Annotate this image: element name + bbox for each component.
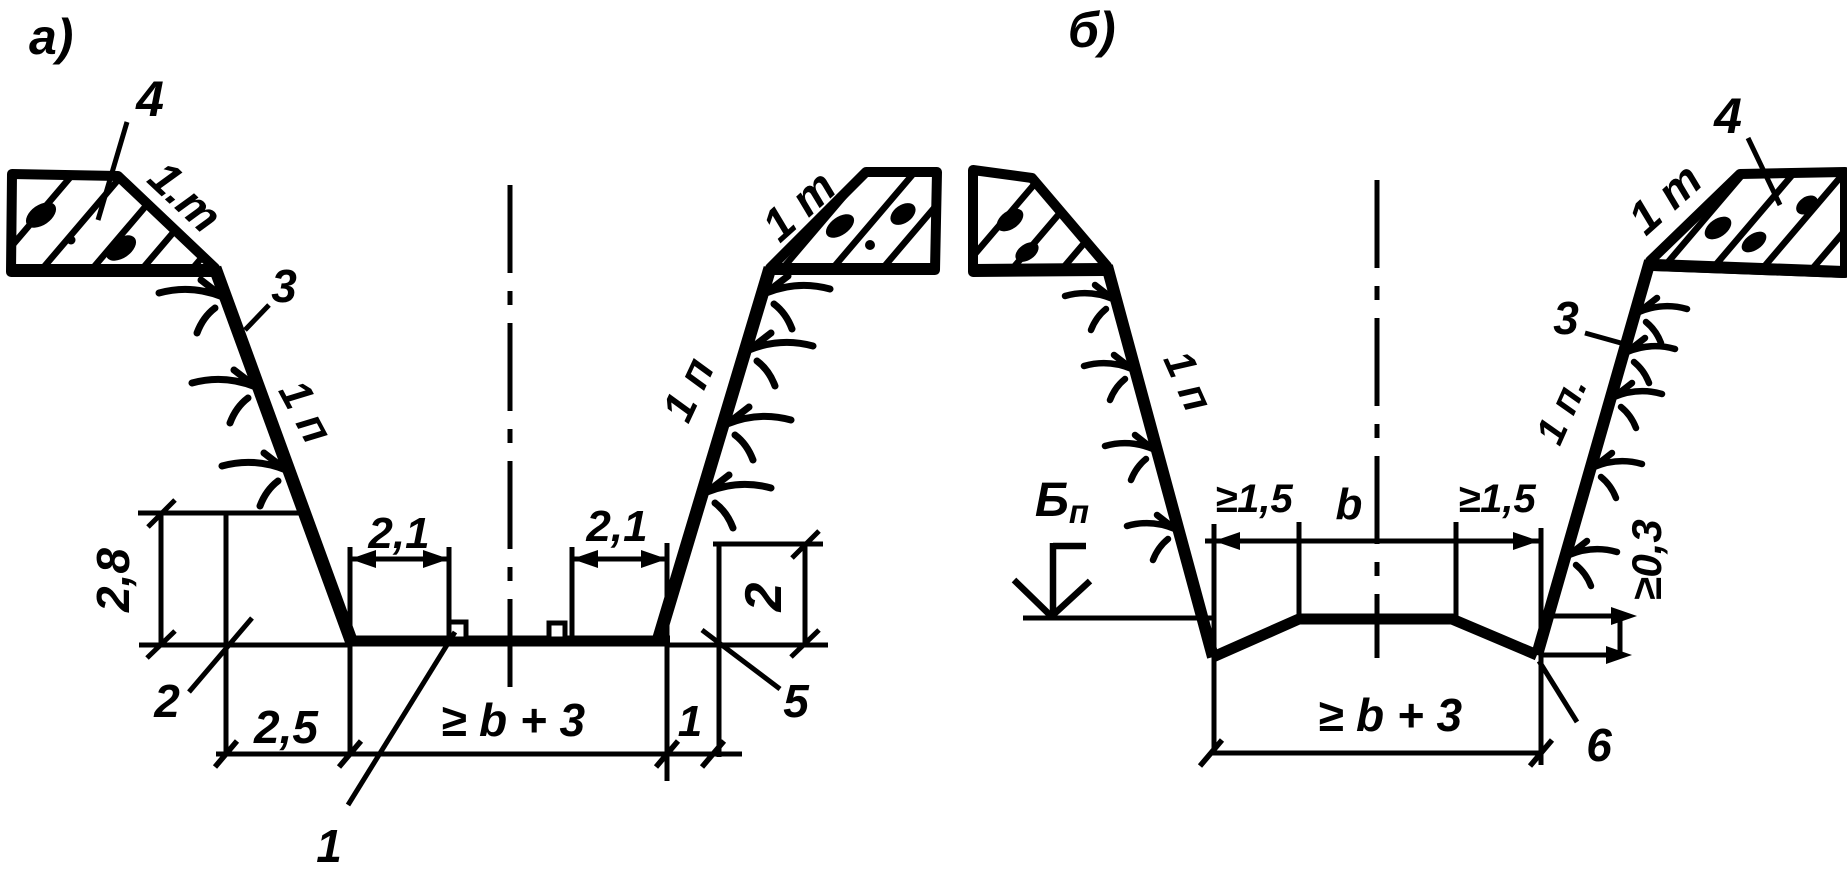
centerline (dashed axis) <box>508 185 513 690</box>
berm right b), hatched <box>1640 160 1847 295</box>
extension line right of toe (1 m offset) <box>717 544 722 757</box>
root marks on right wall b) <box>1569 298 1687 586</box>
extension line from slope shoulder <box>224 513 229 754</box>
svg-text:6: 6 <box>1586 719 1612 771</box>
svg-text:2,1: 2,1 <box>585 502 647 551</box>
berm (spoil bank) left, hatched <box>0 160 285 295</box>
ground datum line left b) <box>1023 616 1213 621</box>
berm right b) bottom edge emphasis <box>1655 265 1844 272</box>
svg-text:а): а) <box>29 9 73 65</box>
root marks on left wall b) <box>1065 285 1175 560</box>
bottom dimension line b) <box>1211 751 1541 756</box>
centerline b) <box>1375 180 1380 658</box>
trench left wall b) <box>1107 266 1213 657</box>
svg-text:≥0,3: ≥0,3 <box>1623 519 1670 600</box>
trench bottom shaped b) <box>1213 619 1537 657</box>
svg-text:2,1: 2,1 <box>367 509 429 558</box>
svg-text:≥1,5: ≥1,5 <box>1215 477 1293 521</box>
svg-text:1: 1 <box>316 820 342 871</box>
berm left bottom edge emphasis <box>11 264 214 276</box>
berm left b) bottom edge emphasis <box>974 269 1104 270</box>
dimension 2 right box <box>713 531 823 657</box>
svg-text:3: 3 <box>1553 292 1579 344</box>
svg-text:2,5: 2,5 <box>253 701 319 753</box>
dimension 2,1 left <box>350 547 449 753</box>
svg-text:1: 1 <box>678 697 702 746</box>
svg-text:б): б) <box>1068 2 1116 58</box>
svg-text:2: 2 <box>735 582 793 612</box>
dimension 2,8 <box>138 500 304 658</box>
svg-text:≥1,5: ≥1,5 <box>1458 477 1536 521</box>
svg-text:4: 4 <box>135 71 164 127</box>
top dimension line b): >=1,5 / b / >=1,5 <box>1205 539 1541 544</box>
svg-text:4: 4 <box>1713 88 1742 144</box>
extension line at right wall toe <box>665 543 670 781</box>
trench left wall <box>215 268 352 643</box>
small peg square left of axis <box>449 622 466 639</box>
trench right wall <box>658 268 770 641</box>
dimension 2,1 right <box>572 547 667 636</box>
trench right wall b) <box>1537 261 1650 655</box>
planning level mark symbol <box>1014 543 1090 616</box>
berm left, hatched <box>940 160 1155 295</box>
small peg square right of axis <box>549 623 565 639</box>
trench bottom thick <box>345 636 670 647</box>
thin baseline right of trench <box>668 643 828 648</box>
svg-text:5: 5 <box>783 675 810 727</box>
thin baseline left of trench <box>139 643 348 648</box>
berm (spoil bank) right, hatched <box>760 160 1025 295</box>
svg-text:3: 3 <box>271 260 297 312</box>
svg-text:≥ b + 3: ≥ b + 3 <box>1318 689 1463 741</box>
dimension >=0,3 right b) <box>1543 612 1630 658</box>
bottom dimension line a) <box>216 752 742 757</box>
svg-text:b: b <box>1336 480 1363 529</box>
root marks on left wall <box>159 280 286 506</box>
root marks on right wall <box>707 276 830 528</box>
svg-text:2,8: 2,8 <box>87 548 139 613</box>
svg-text:≥ b + 3: ≥ b + 3 <box>441 694 586 746</box>
berm right bottom edge emphasis <box>773 263 934 275</box>
svg-text:2: 2 <box>153 675 180 727</box>
